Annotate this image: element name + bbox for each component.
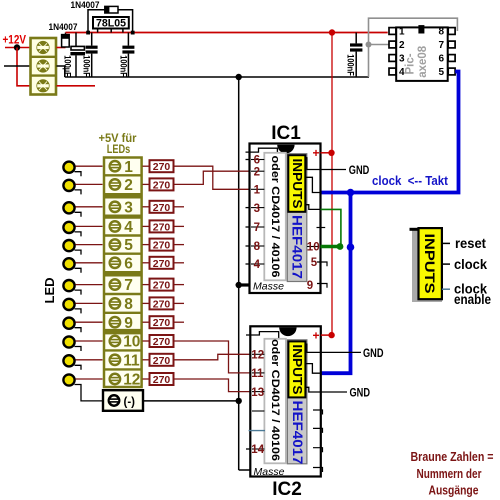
IC1 enable step xyxy=(305,205,320,210)
resistor R10 270 xyxy=(150,335,174,347)
svg-text:11: 11 xyxy=(251,368,264,380)
svg-text:10: 10 xyxy=(307,242,320,254)
svg-text:axe08: axe08 xyxy=(417,45,429,78)
node minus ground junction xyxy=(236,398,242,404)
diode D2 1N4007 horizontal xyxy=(105,6,118,13)
terminal X2 screw 9 xyxy=(110,317,120,327)
IC2 internal top step xyxy=(246,332,279,339)
terminal X1 screw 1 xyxy=(36,41,49,54)
terminal X3 minus xyxy=(103,390,143,411)
wire 0V input xyxy=(4,65,30,67)
resistor R8 270 xyxy=(150,297,174,309)
svg-text:270: 270 xyxy=(153,179,171,191)
svg-text:270: 270 xyxy=(153,240,171,252)
wire ground rail xyxy=(65,76,369,78)
LED 7 cathode lead xyxy=(75,290,82,295)
IC1 strip oder CD4017 xyxy=(264,153,286,280)
svg-text:5: 5 xyxy=(439,67,445,78)
svg-text:100nF: 100nF xyxy=(345,54,356,76)
capacitor C2 100nF xyxy=(86,33,98,78)
LED 3 anode wire xyxy=(76,206,103,208)
svg-text:+: + xyxy=(313,146,320,160)
wire terminal to R9 xyxy=(143,321,150,323)
wire minus to ground bus xyxy=(143,400,239,402)
IC2 reset step xyxy=(305,344,361,352)
wire R12 to IC2 pin13 xyxy=(174,379,250,392)
LED 3 cathode lead xyxy=(75,212,82,217)
terminal X1 separator 1 xyxy=(31,56,57,58)
wire +5V rail xyxy=(66,32,388,34)
wire +12V input xyxy=(5,47,30,49)
IC2 inputs box xyxy=(288,341,305,397)
node gray junction xyxy=(366,42,372,48)
IC1 pin 1 line xyxy=(251,188,264,190)
IC2 right pin hook y467.5 xyxy=(313,468,323,473)
IC2 pin 14 stub xyxy=(246,448,250,450)
U1 pin 1 square xyxy=(389,28,396,35)
terminal block X1 xyxy=(31,38,57,95)
capacitor C1 100uF xyxy=(70,33,85,78)
node +5V junction at picaxe xyxy=(329,29,335,35)
resistor R9 270 xyxy=(150,316,174,328)
U1 pin 8 square xyxy=(448,28,455,35)
svg-text:clock: clock xyxy=(454,257,487,272)
wire ground bus vertical xyxy=(238,77,240,470)
svg-text:Ausgänge: Ausgänge xyxy=(429,483,479,498)
svg-text:INPUTS: INPUTS xyxy=(290,344,304,394)
terminal X2 separator 1 xyxy=(104,174,142,176)
svg-text:3: 3 xyxy=(254,203,260,215)
svg-text:8: 8 xyxy=(124,296,133,313)
terminal X2 screw 8 xyxy=(110,298,120,308)
LED 12 xyxy=(63,374,74,385)
svg-text:6: 6 xyxy=(439,54,445,65)
svg-text:4: 4 xyxy=(254,259,261,271)
wire D2 bypass loop xyxy=(88,10,105,33)
svg-text:8: 8 xyxy=(439,27,445,38)
svg-text:270: 270 xyxy=(153,221,171,233)
wire +5V down to IC1/IC2 xyxy=(331,33,333,336)
terminal X3 screw xyxy=(109,395,119,405)
LED 5 cathode lead xyxy=(75,250,82,255)
wire R8 stub xyxy=(174,302,185,304)
svg-text:12: 12 xyxy=(251,350,264,362)
LED 7 anode wire xyxy=(76,284,103,286)
IC1 clock step xyxy=(305,177,320,192)
IC1 pin 9 hook xyxy=(317,284,327,288)
IC1 pin 3 line xyxy=(251,207,264,209)
wire X1-1 to D1 xyxy=(57,47,66,49)
IC2 pin 11 line xyxy=(252,372,264,374)
resistor R1 270 xyxy=(150,160,174,172)
U1 notch xyxy=(418,25,424,33)
wire terminal to R3 xyxy=(143,206,150,208)
wire R9 stub xyxy=(174,321,185,323)
resistor R3 270 xyxy=(150,201,174,213)
svg-text:100µF: 100µF xyxy=(62,55,73,77)
LED 3 xyxy=(63,202,74,213)
IC1 pin tick mid xyxy=(317,227,326,229)
node square junction left xyxy=(86,31,90,35)
terminal X2 separator 8 xyxy=(104,312,142,314)
LED 8 xyxy=(63,299,74,310)
LED 10 cathode lead xyxy=(75,347,82,352)
terminal strip X2 xyxy=(104,158,142,388)
legend top tab xyxy=(410,228,420,231)
svg-text:270: 270 xyxy=(153,336,171,348)
svg-text:Masse: Masse xyxy=(253,281,284,293)
svg-text:HEF4017: HEF4017 xyxy=(290,401,305,465)
terminal X2 screw 4 xyxy=(110,221,120,231)
svg-text:8: 8 xyxy=(254,241,261,253)
svg-text:2: 2 xyxy=(254,166,260,178)
terminal X2 screw 3 xyxy=(110,202,120,212)
terminal X2 separator 5 xyxy=(104,252,142,254)
wire terminal to R12 xyxy=(143,378,150,380)
svg-text:78L05: 78L05 xyxy=(96,18,126,30)
resistor R7 270 xyxy=(150,279,174,291)
LED 1 xyxy=(63,162,74,173)
pin 78L05 leg1 xyxy=(97,29,99,33)
svg-text:1N4007: 1N4007 xyxy=(49,22,78,32)
svg-text:(-): (-) xyxy=(124,396,136,408)
terminal X2 separator 11 xyxy=(104,368,142,370)
svg-text:9: 9 xyxy=(307,280,313,292)
IC1 body xyxy=(250,144,321,294)
LED 4 cathode lead xyxy=(75,232,82,237)
LED 6 xyxy=(63,258,74,269)
wire R2 to IC1 pin2 xyxy=(174,171,250,184)
resistor R12 270 xyxy=(150,373,174,385)
terminal X2 separator 6 xyxy=(104,271,142,277)
U1 pin 4 square xyxy=(389,68,396,75)
resistor R11 270 xyxy=(150,354,174,366)
node IC1 plus junction xyxy=(328,150,334,156)
IC1 inputs box xyxy=(288,155,305,212)
svg-text:4: 4 xyxy=(124,219,133,236)
svg-text:GND: GND xyxy=(349,163,370,177)
IC1 pin 4 stub xyxy=(246,263,250,265)
wire X1-2 to ground rail xyxy=(57,66,65,77)
wire terminal to R10 xyxy=(143,340,150,342)
svg-text:270: 270 xyxy=(153,161,171,173)
IC1 pin 3 stub xyxy=(246,207,250,209)
svg-text:2: 2 xyxy=(124,177,133,194)
IC2 notch xyxy=(279,328,296,337)
svg-text:6: 6 xyxy=(254,155,260,167)
terminal X2 screw 5 xyxy=(110,239,120,249)
wire R6 stub xyxy=(174,262,185,264)
svg-text:270: 270 xyxy=(153,298,171,310)
wire R5 stub xyxy=(174,244,185,246)
IC1 enable green wire xyxy=(321,209,341,246)
wire X1-3 +12V stub xyxy=(57,85,96,87)
node IC1 masse junction xyxy=(236,282,242,288)
svg-text:7: 7 xyxy=(124,277,133,294)
wire terminal to R8 xyxy=(143,302,150,304)
LED 12 cathode lead to minus xyxy=(75,385,103,401)
IC1 pin10 green stub xyxy=(321,245,341,248)
svg-text:100nF: 100nF xyxy=(117,55,128,77)
IC1 notch xyxy=(277,145,294,154)
LED 7 xyxy=(63,280,74,291)
LED 8 anode wire xyxy=(76,302,103,304)
wire +12V branch down xyxy=(17,48,30,86)
LED 2 anode wire xyxy=(76,183,103,185)
wire R4 stub xyxy=(174,225,185,227)
resistor R4 270 xyxy=(150,220,174,232)
svg-text:270: 270 xyxy=(153,258,171,270)
svg-text:+: + xyxy=(313,328,320,342)
svg-text:2: 2 xyxy=(399,40,405,51)
IC2 right pin hook y428.4 xyxy=(313,428,323,433)
IC1 pin 7 stub xyxy=(246,226,250,228)
svg-text:LED: LED xyxy=(42,278,57,304)
svg-text:GND: GND xyxy=(363,346,384,360)
IC1 pin10 line xyxy=(307,246,319,248)
svg-text:270: 270 xyxy=(153,317,171,329)
svg-text:enable: enable xyxy=(454,292,491,307)
legend reset tick xyxy=(442,242,450,244)
terminal X1 screw 3 xyxy=(36,79,49,92)
U1 pin 7 square xyxy=(448,41,455,48)
LED 4 anode wire xyxy=(76,225,103,227)
terminal X2 screw 2 xyxy=(110,179,120,189)
IC1 pin 8 stub xyxy=(246,245,250,247)
node IC2 plus junction xyxy=(328,332,334,338)
svg-text:Braune Zahlen =: Braune Zahlen = xyxy=(411,449,494,464)
wire D1 to +5V rail xyxy=(65,33,67,35)
LED 1 anode wire xyxy=(76,165,103,167)
svg-text:13: 13 xyxy=(251,387,264,399)
wire terminal to R5 xyxy=(143,244,150,246)
svg-text:12: 12 xyxy=(123,372,140,389)
legend shadow xyxy=(412,230,419,302)
terminal X2 separator 3 xyxy=(104,215,142,219)
LED 6 anode wire xyxy=(76,262,103,264)
LED 10 anode wire xyxy=(76,340,103,342)
LED 4 xyxy=(63,222,74,233)
svg-text:270: 270 xyxy=(153,374,171,386)
pin 78L05 leg2 xyxy=(110,29,112,33)
legend enable tick xyxy=(442,288,450,290)
capacitor C3 100nF xyxy=(122,33,134,78)
diode D1 1N4007 vertical xyxy=(62,35,70,47)
terminal X2 screw 10 xyxy=(110,336,120,346)
svg-text:270: 270 xyxy=(153,202,171,214)
LED 11 anode wire xyxy=(76,359,103,361)
wire R3 stub xyxy=(174,206,185,208)
svg-text:1: 1 xyxy=(399,27,405,38)
svg-text:INPUTS: INPUTS xyxy=(290,159,304,209)
legend inputs box xyxy=(419,228,442,299)
IC2 strip oder CD4017 xyxy=(264,339,286,464)
wire terminal to R6 xyxy=(143,262,150,264)
LED 8 cathode lead xyxy=(75,309,82,314)
IC1 pin 5 hook xyxy=(317,262,327,266)
svg-text:1: 1 xyxy=(124,159,133,176)
svg-text:Nummern der: Nummern der xyxy=(417,466,482,481)
IC2 right pin hook y410.0 xyxy=(313,410,323,415)
svg-text:Pic-: Pic- xyxy=(405,53,417,74)
LED 10 xyxy=(63,336,74,347)
svg-text:LEDs: LEDs xyxy=(107,142,131,156)
IC2 pin 12 line xyxy=(252,353,264,355)
terminal X2 separator 4 xyxy=(104,234,142,236)
U1 pin 6 square xyxy=(448,55,455,62)
IC1 gray tab xyxy=(287,154,307,282)
resistor R6 270 xyxy=(150,257,174,269)
regulator U2 78L05 xyxy=(93,17,129,29)
IC1 masse stub xyxy=(239,283,250,286)
op-chip U1 Picaxe-08 body xyxy=(396,27,448,81)
wire clock blue down to IC2 xyxy=(321,193,351,374)
svg-text:9: 9 xyxy=(124,315,133,332)
terminal X2 screw 6 xyxy=(110,258,120,268)
wire R10 to IC2 pin11 xyxy=(174,341,250,373)
IC2 gray tab xyxy=(287,340,307,464)
svg-text:oder CD4017 / 40106: oder CD4017 / 40106 xyxy=(269,339,281,461)
IC2 pin 14 line xyxy=(252,448,264,450)
LED 1 cathode lead xyxy=(75,172,82,177)
wire R7 stub xyxy=(174,284,185,286)
U1 pin 5 square xyxy=(448,68,455,75)
LED 2 cathode lead xyxy=(75,190,82,195)
svg-text:100nF: 100nF xyxy=(81,55,92,77)
node ground junction xyxy=(236,74,242,80)
node clock junction xyxy=(347,189,355,197)
svg-text:5: 5 xyxy=(311,257,318,269)
terminal X2 separator 9 xyxy=(104,329,142,335)
LED 12 anode wire xyxy=(76,378,103,380)
node green junction xyxy=(337,243,344,250)
svg-text:10: 10 xyxy=(123,334,140,351)
wire terminal to R11 xyxy=(143,359,150,361)
terminal X2 screw 7 xyxy=(110,279,120,289)
node +12V junction xyxy=(14,44,20,50)
terminal X2 screw 12 xyxy=(110,374,120,384)
wire D2 bypass loop right xyxy=(118,10,133,33)
wire clock blue xyxy=(321,72,459,193)
IC1 pin 4 line xyxy=(251,263,264,265)
svg-text:7: 7 xyxy=(439,40,445,51)
IC1 pin 8 line xyxy=(251,245,264,247)
IC1 pin 2 line xyxy=(251,170,264,172)
resistor R5 270 xyxy=(150,239,174,251)
U1 pin 2 square xyxy=(389,41,396,48)
LED 2 xyxy=(63,180,74,191)
resistor R2 270 xyxy=(150,178,174,190)
IC2 pin 13 line xyxy=(252,391,264,393)
LED 11 cathode lead xyxy=(75,365,82,370)
IC1 pin 6 stub xyxy=(246,159,250,161)
node clock dot xyxy=(347,243,355,251)
svg-text:IC2: IC2 xyxy=(272,479,302,500)
svg-text:1: 1 xyxy=(254,185,261,197)
pin 78L05 leg3 xyxy=(122,29,124,33)
terminal X2 screw 1 xyxy=(110,161,120,171)
terminal X1 screw 2 xyxy=(36,59,49,72)
svg-text:HEF4017: HEF4017 xyxy=(290,215,305,279)
IC2 clock step xyxy=(305,364,320,374)
LED 11 xyxy=(63,355,74,366)
IC1 pin 6 line xyxy=(251,159,264,161)
terminal X2 separator 10 xyxy=(104,349,142,351)
svg-text:INPUTS: INPUTS xyxy=(422,234,438,294)
IC2 teal pin line xyxy=(249,430,265,432)
wire gray picaxe gnd loop xyxy=(369,18,458,77)
LED 9 anode wire xyxy=(76,321,103,323)
terminal X2 screw 11 xyxy=(110,355,120,365)
svg-text:7: 7 xyxy=(254,222,260,234)
LED 9 cathode lead xyxy=(75,328,82,333)
IC2 right pin hook y447.7 xyxy=(313,448,323,453)
LED 5 anode wire xyxy=(76,244,103,246)
IC1 reset step xyxy=(305,158,346,170)
legend clock tick xyxy=(442,263,450,265)
svg-text:GND: GND xyxy=(350,385,371,399)
svg-text:reset: reset xyxy=(455,236,486,251)
svg-text:11: 11 xyxy=(123,352,140,369)
terminal X2 separator 7 xyxy=(104,293,142,295)
wire terminal to R1 xyxy=(143,165,150,167)
wire R1 to IC1 pin1 xyxy=(174,166,250,189)
IC1 pin 7 line xyxy=(251,226,264,228)
terminal X2 separator 2 xyxy=(104,193,142,199)
svg-text:oder CD4017 / 40106: oder CD4017 / 40106 xyxy=(269,156,281,278)
wire terminal to R2 xyxy=(143,183,150,185)
IC2 pin 15 line xyxy=(252,410,264,412)
svg-text:Masse: Masse xyxy=(254,466,285,478)
svg-text:+12V: +12V xyxy=(3,35,27,47)
svg-text:14: 14 xyxy=(251,444,264,456)
svg-text:270: 270 xyxy=(153,355,171,367)
wire terminal to R4 xyxy=(143,225,150,227)
IC2 masse wire xyxy=(239,469,251,471)
svg-text:IC1: IC1 xyxy=(271,123,301,144)
IC2 body xyxy=(250,326,320,476)
LED 9 xyxy=(63,318,74,329)
svg-text:6: 6 xyxy=(124,255,133,272)
wire gray serial-in xyxy=(369,44,389,46)
terminal X1 separator 2 xyxy=(31,74,57,76)
LED 6 cathode lead xyxy=(75,268,82,273)
svg-text:3: 3 xyxy=(124,199,133,216)
node square junction right xyxy=(131,31,135,35)
wire terminal to R7 xyxy=(143,284,150,286)
U1 pin 3 square xyxy=(389,55,396,62)
IC2 enable step xyxy=(305,387,347,392)
svg-text:5: 5 xyxy=(124,237,133,254)
LED 5 xyxy=(63,240,74,251)
svg-text:270: 270 xyxy=(153,280,171,292)
IC1 internal top step xyxy=(246,148,278,155)
wire R11 to IC2 pin12 xyxy=(174,354,250,360)
svg-text:1N4007: 1N4007 xyxy=(71,0,100,10)
capacitor C4 100nF xyxy=(350,33,362,78)
svg-text:clock <-- Takt: clock <-- Takt xyxy=(372,174,449,188)
